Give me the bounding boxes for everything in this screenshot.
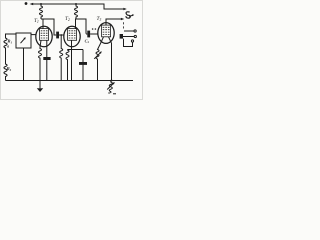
battery minus terminal bbox=[113, 93, 116, 95]
detector arrow bbox=[21, 39, 25, 44]
wire anode T3 to telephone bbox=[106, 19, 122, 25]
wire bypass branch bbox=[82, 50, 84, 63]
rheostat arrow R5 bbox=[94, 53, 100, 59]
label minus bbox=[108, 92, 110, 94]
jack switch dashed link bbox=[123, 22, 125, 28]
wire T3 cathode leg bbox=[96, 37, 104, 81]
antenna coil L3 bbox=[4, 34, 16, 81]
resistor R3 grid leak bbox=[60, 35, 63, 81]
choke L1 bbox=[39, 5, 42, 20]
choke L2 bbox=[74, 5, 77, 20]
terminal arrow right end to telephone bbox=[123, 8, 126, 11]
resistor R4 bbox=[66, 50, 69, 81]
frame bbox=[1, 1, 143, 100]
node junction dot choke L1 bbox=[40, 3, 42, 5]
wire bottom return rail bbox=[6, 80, 134, 82]
capacitor C4 coupling block bbox=[87, 31, 90, 38]
detector box D bbox=[16, 33, 31, 48]
tube T2 envelope bbox=[64, 26, 80, 46]
wire T1 filament leg right bbox=[46, 40, 48, 57]
wire T1 cathode leg left bbox=[39, 40, 42, 80]
rheostat arrow R6 bbox=[107, 84, 113, 90]
svg-text:T3: T3 bbox=[97, 16, 102, 22]
paper background bbox=[0, 0, 143, 100]
wire box to rail bbox=[23, 48, 25, 81]
capacitor C3 cathode bypass bbox=[43, 57, 50, 60]
jack bracket contact 3 bbox=[124, 39, 133, 47]
jack contact arm 1 bbox=[124, 30, 134, 32]
telephone arrow bbox=[129, 15, 133, 16]
telephone symbol bbox=[126, 12, 130, 18]
wire grid T1 bbox=[31, 34, 36, 36]
wire filament bus bbox=[68, 49, 84, 51]
wire T3 filament leg right bbox=[109, 37, 112, 81]
label dots bbox=[92, 28, 94, 30]
svg-text:a: a bbox=[7, 44, 9, 48]
wire T2 filament leg bbox=[71, 40, 73, 80]
capacitor C2 coupling block bbox=[56, 32, 59, 39]
tube T3 envelope bbox=[98, 23, 114, 44]
wire coupling to C2 bbox=[43, 19, 56, 35]
rheostat R6 filament bbox=[109, 81, 112, 94]
jack bush contact bbox=[120, 34, 123, 39]
node rail junction bbox=[111, 80, 113, 82]
terminal arrow lower telephone lead bbox=[121, 18, 124, 21]
wire grid T2 bbox=[59, 34, 64, 36]
svg-text:T1: T1 bbox=[34, 18, 39, 24]
tube T2 electrode cage bbox=[68, 29, 77, 41]
wire top supply rail bbox=[33, 4, 125, 9]
node +B terminal dot bbox=[25, 2, 28, 5]
svg-text:T2: T2 bbox=[65, 16, 70, 22]
ground bbox=[39, 81, 41, 89]
wire anode T2 bbox=[76, 19, 87, 34]
jack contact arm 2 bbox=[123, 36, 134, 38]
terminal arrow left end of supply rail bbox=[30, 3, 34, 6]
wire anode T1 bbox=[41, 19, 43, 29]
tube T3 electrode cage bbox=[102, 25, 111, 37]
node grid leak junction bbox=[60, 34, 62, 36]
node junction dot choke L2 bbox=[75, 3, 77, 5]
svg-text:R2: R2 bbox=[7, 66, 12, 72]
tube T1 envelope bbox=[36, 26, 52, 46]
tube T1 electrode cage bbox=[40, 29, 49, 41]
capacitor C5 bypass bbox=[79, 62, 87, 65]
